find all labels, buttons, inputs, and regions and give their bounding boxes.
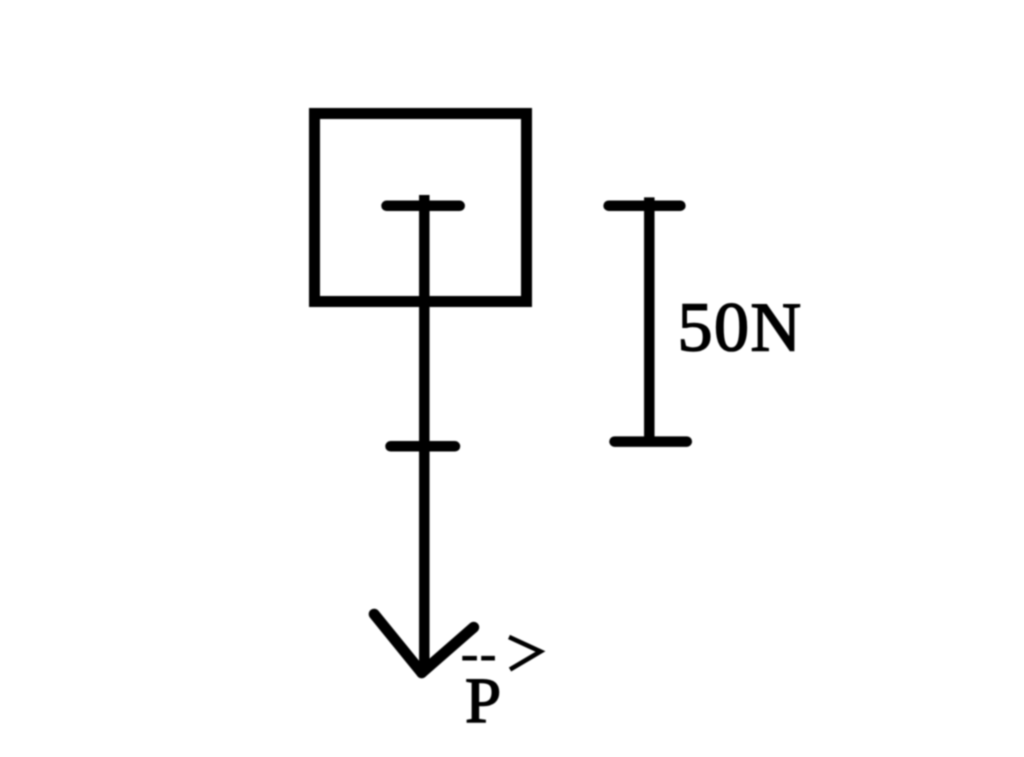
arrowhead right wing [422,627,474,672]
scale bar top cap [609,200,681,211]
block (square box) [315,114,527,302]
wire (force vector shaft) [419,195,430,668]
node A (start tick at vector tail) [387,201,460,212]
dashed arrow dash 2 [481,656,495,661]
node B (mid tick on vector) [391,441,456,452]
dashed arrow chevron [509,637,541,670]
svg-text:P: P [465,665,501,737]
scale bar bottom cap [615,436,687,447]
dashed arrow dash 1 [462,656,477,661]
scale bar vertical line [644,197,655,441]
svg-text:50N: 50N [678,290,803,367]
arrowhead left wing [374,614,422,673]
